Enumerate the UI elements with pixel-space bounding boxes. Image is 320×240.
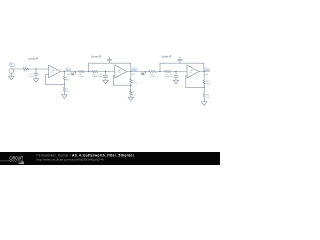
node C5 tap junction [175,71,176,72]
label R7 [164,74,169,78]
svg-text:OA2: OA2 [118,69,121,72]
OA2 inner text [118,69,121,74]
svg-text:+: + [14,70,16,72]
ground under R3 [62,95,68,99]
node label V1 flag box [10,63,15,67]
voltage source V1 [9,69,14,76]
ground under C5 [173,80,179,84]
node out1 flag box [65,68,70,71]
label R6 [150,74,155,78]
svg-text:OA1: OA1 [51,69,54,72]
OA2 pin marks [115,71,117,78]
svg-text:R6: R6 [151,74,153,76]
wire feedback2 top [89,63,131,71]
svg-text:741: 741 [51,72,54,74]
OA1 inner text [51,69,54,74]
resistor R9 [130,91,132,95]
footer logo CIRCUIT [10,155,24,161]
svg-text:R1: R1 [24,67,26,69]
wire R6 to R7 [156,71,165,73]
ground under C1 [33,79,39,83]
capacitor C2 [107,58,111,64]
svg-text:R3: R3 [66,89,68,91]
svg-text:OA3: OA3 [190,69,193,72]
node out3 flag box [205,68,210,71]
svg-text:C3: C3 [99,74,101,76]
svg-text:935 Ω: 935 Ω [206,84,211,86]
resistor R3 [63,88,65,92]
svg-text:out2: out2 [133,68,137,71]
svg-text:3.3 kΩ: 3.3 kΩ [150,76,155,78]
svg-text:C2: C2 [108,56,110,58]
label R8 [132,80,137,84]
wire R10 to junction [203,84,205,87]
svg-text:R9: R9 [132,92,134,94]
OA3 pin marks [188,71,190,78]
label C2 [108,56,110,58]
wire R2 to junction [63,80,65,84]
svg-text:C4: C4 [178,56,180,58]
svg-text:OA1: OA1 [67,73,70,76]
node divider1 junction [64,71,65,72]
svg-text:1.6: 1.6 [142,73,144,75]
wire divider1 down [63,72,65,77]
svg-text:R5: R5 [93,74,95,76]
svg-text:C1: C1 [29,74,31,76]
wire R9 to ground [130,95,132,97]
svg-text:1.5 µF: 1.5 µF [168,76,173,78]
label C3 [98,74,103,78]
label C4 [178,56,180,58]
resistor R2 [63,76,65,80]
label R11 [206,95,210,99]
label V1 value text [10,64,12,68]
wire junction to R11 [203,87,205,93]
node divider3 junction [204,71,205,72]
resistor R8 [130,79,132,83]
svg-text:-: - [14,72,15,74]
svg-text:1 kΩ: 1 kΩ [206,97,210,99]
wire R11 to ground [203,98,205,102]
ground under V1 [9,76,15,80]
wire R1 to opamp [29,68,49,70]
node divider2 junction [130,71,131,72]
svg-text:-: - [49,74,50,76]
OA3 inner text [190,69,193,74]
label R5 [92,74,98,78]
footer line1 user [37,153,71,157]
svg-text:R4: R4 [79,74,81,76]
svg-text:586 Ω: 586 Ω [66,80,71,82]
node C3 tap junction [105,71,106,72]
label out2 [133,68,137,71]
capacitor C1 [34,69,38,79]
resistor R7 [165,70,171,72]
label out1 [66,68,70,71]
wire feedback3 top [160,63,204,71]
wire divider3 down [203,72,205,81]
svg-text:152 Ω: 152 Ω [132,82,137,84]
svg-text:http://www.circuitlab.com/circ: http://www.circuitlab.com/circuit/9y56b3… [37,158,105,162]
footer logo wire [0,160,23,162]
label R2 [66,77,71,81]
svg-text:R10: R10 [206,81,209,83]
node A junction [35,68,36,69]
label R9 [132,92,136,96]
wire feedback1 loop [46,74,65,84]
footer bar [0,152,220,165]
wire feedback3 loop [186,76,204,88]
label R1 [23,67,27,73]
ground under R9 [128,97,134,101]
node fbtap3 junction [159,71,160,72]
node fb3 junction [204,87,205,88]
wire OA3 output [199,71,209,73]
ground under C3 [103,80,109,84]
resistor R10 [203,80,205,84]
label 2nd order LPF stage3 [162,54,172,58]
op-amp OA3 [187,65,199,78]
svg-text:out1: out1 [66,68,70,71]
ground under R11 [201,102,207,106]
resistor R4 [79,70,85,72]
svg-text:3.18 µF: 3.18 µF [98,76,103,78]
resistor R11 [203,94,205,98]
capacitor C3 [103,72,107,81]
label out3 [205,68,209,71]
svg-text:1 kΩ: 1 kΩ [23,71,27,73]
svg-text:R8: R8 [132,80,134,82]
V1 polarity marks [14,70,16,75]
svg-text:1.08 kΩ: 1.08 kΩ [78,76,84,78]
label C5 [168,74,173,78]
svg-text:OA3: OA3 [205,73,208,76]
node out2 flag box [132,68,137,71]
capacitor C5 [174,72,178,81]
wire V1 to R1 [11,68,23,70]
wire feedback2 loop [113,76,131,85]
svg-text:3.18 µF: 3.18 µF [28,76,33,78]
label 1st order LPF [28,56,39,60]
svg-text:741: 741 [190,72,193,74]
node fb2 junction [130,85,131,86]
node fbtap2 junction [88,71,89,72]
svg-text:1.1: 1.1 [72,73,74,75]
wire R7 to opamp3 [171,71,188,73]
OA1 pin marks [49,69,51,76]
svg-text:1 V: 1 V [10,66,12,68]
svg-text:2nd order LPF: 2nd order LPF [91,54,101,58]
svg-text:R11: R11 [206,95,209,97]
svg-text:741: 741 [118,72,121,74]
label R10 [206,81,211,85]
node flag vp2 [141,72,146,76]
wire R4 to R5 [85,71,93,73]
resistor R6 [149,70,156,72]
wire junction to R9 [130,85,132,91]
footer line1 title [72,153,135,157]
label OA2 under wire [131,73,134,76]
svg-text:C5: C5 [169,74,171,76]
wire R5 to opamp2 [98,71,115,73]
wire divider2 down [130,72,132,79]
svg-text:OA2: OA2 [131,73,134,76]
wire R3 to ground [63,92,65,95]
label OA3 under wire [205,73,208,76]
op-amp OA2 [115,65,127,78]
resistor R1 [23,68,29,70]
svg-text:LAB: LAB [19,161,25,165]
resistor R5 [92,70,98,72]
svg-text:1 kΩ: 1 kΩ [132,94,136,96]
node fb1 junction [64,84,65,85]
label OA1 under wire [67,73,70,76]
footer logo LAB [19,161,25,166]
node flag vp1 [71,72,76,76]
svg-text:R7: R7 [165,74,167,76]
svg-text:1st order LPF: 1st order LPF [28,56,39,60]
svg-text:1 kΩ: 1 kΩ [66,91,70,93]
label R4 [78,74,84,78]
label R3 [66,89,70,93]
wire OA1 output [61,71,79,73]
label C1 [28,74,33,78]
capacitor C4 [178,58,182,64]
op-amp OA1 [49,65,61,78]
label 2nd order LPF [91,54,101,58]
svg-text:out3: out3 [205,68,209,71]
footer line2 url [37,158,105,162]
wire OA2 output [127,71,150,73]
svg-text:2nd order LPF: 2nd order LPF [162,54,172,58]
wire R8 to junction [130,83,132,85]
svg-text:R2: R2 [66,77,68,79]
wire junction to R3 [63,84,65,87]
